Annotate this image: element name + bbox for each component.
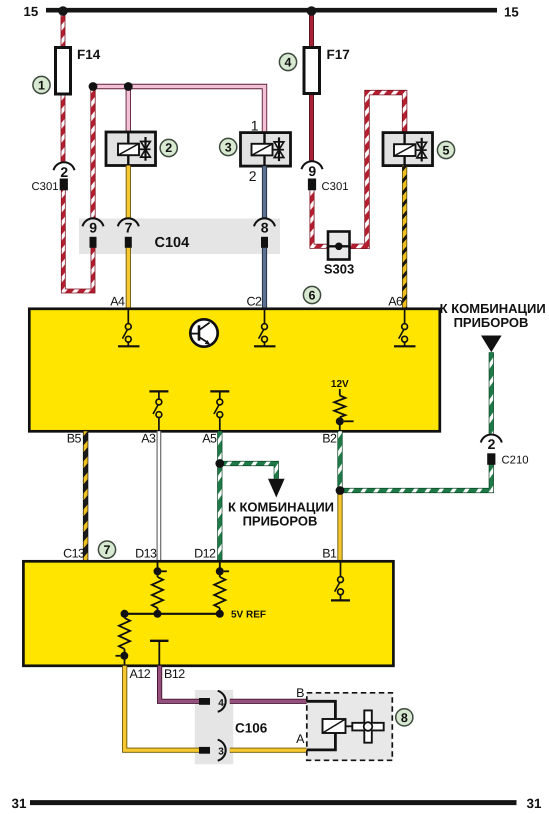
wire junction to C210 green-white <box>340 465 491 491</box>
wire F17 to C301 right <box>309 95 314 161</box>
badge 1 <box>33 76 50 93</box>
node pink junction 2 <box>124 82 133 91</box>
node pink junction 1 <box>89 82 98 91</box>
node bus junction F17 <box>307 6 317 16</box>
switch B1 inside ECU2 <box>331 562 350 600</box>
bus 15 <box>24 4 519 20</box>
bus 31 <box>12 796 542 811</box>
svg-text:B12: B12 <box>164 667 185 681</box>
svg-text:ПРИБОРОВ: ПРИБОРОВ <box>243 514 318 529</box>
badge 7 <box>98 541 115 558</box>
injector relay box 2 <box>106 132 156 166</box>
svg-text:31: 31 <box>12 796 27 811</box>
svg-text:1: 1 <box>251 118 259 134</box>
badge 5 <box>437 141 454 158</box>
svg-text:15: 15 <box>24 4 39 19</box>
wire C301 down-right-up to C104 pin 9 <box>63 190 93 291</box>
label B2 <box>322 432 337 446</box>
svg-text:7: 7 <box>125 220 133 236</box>
svg-text:B: B <box>296 686 304 700</box>
label B5 <box>67 432 82 446</box>
svg-text:7: 7 <box>104 543 111 557</box>
svg-text:3: 3 <box>225 141 232 155</box>
wire F14 to C301 <box>61 95 66 162</box>
badge 2 <box>160 139 177 156</box>
badge 8 <box>396 709 413 726</box>
connector C104 pin 9 <box>83 218 104 247</box>
injector relay box 3 <box>241 118 291 185</box>
svg-text:C2: C2 <box>247 294 263 308</box>
label C106 <box>235 721 268 736</box>
svg-text:B2: B2 <box>322 432 337 446</box>
label A <box>296 732 305 746</box>
svg-text:9: 9 <box>308 163 316 179</box>
wire F14 feed <box>61 12 66 48</box>
wire B5 to C13 black-yellow <box>83 431 88 561</box>
D13 pullup resistor <box>152 562 167 618</box>
svg-text:К КОМБИНАЦИИ: К КОМБИНАЦИИ <box>228 500 334 515</box>
A12 resistor <box>116 614 131 666</box>
svg-text:8: 8 <box>401 711 408 725</box>
D12 pullup resistor <box>214 562 266 620</box>
transistor symbol <box>190 319 217 346</box>
svg-text:D12: D12 <box>194 547 216 561</box>
wire S303 to relay 5 <box>350 93 405 247</box>
switch A6 inside ECU <box>394 310 416 346</box>
arrow to cluster mid <box>228 479 334 529</box>
label D12 <box>194 547 216 561</box>
B12 plate <box>150 641 169 666</box>
fuse F14 <box>56 47 101 94</box>
svg-text:2: 2 <box>165 141 172 155</box>
wire A12 yellow to C106 pin3 <box>125 666 210 750</box>
wire C104 pin 9 up to pink junction <box>90 87 95 218</box>
label A4 <box>110 294 125 308</box>
wire injector2 to C104 pin7 yellow <box>126 166 131 218</box>
label D13 <box>135 547 157 561</box>
connector C104 bar <box>79 219 280 255</box>
svg-text:B1: B1 <box>322 547 337 561</box>
wire junction to B1 yellow <box>337 491 342 562</box>
svg-text:C13: C13 <box>63 547 85 561</box>
wire C106 pin3 to valve A <box>230 748 307 753</box>
wire F17 feed <box>309 12 314 48</box>
wire C104 pin7 to ECU A4 <box>126 248 131 309</box>
wire C210 up to arrow green-white <box>489 352 494 433</box>
splice S303 <box>324 232 354 277</box>
label C13 <box>63 547 85 561</box>
connector C301 pin 9 <box>302 161 349 193</box>
wire B12 purple to C106 pin4 <box>160 666 210 702</box>
svg-text:1: 1 <box>38 79 45 93</box>
svg-text:A5: A5 <box>202 432 217 446</box>
connector C106 bar <box>195 690 233 764</box>
wire A5 branch to cluster <box>220 464 276 479</box>
IAC valve box 8 <box>307 693 393 761</box>
5V rail <box>121 610 220 618</box>
wire A3 to D13 white <box>156 431 161 561</box>
svg-text:S303: S303 <box>324 262 354 277</box>
ECU box 1 <box>29 309 440 432</box>
svg-text:A12: A12 <box>130 667 151 681</box>
switch A5 inside ECU <box>210 391 229 431</box>
wire pink branch to injector 2 <box>126 87 131 133</box>
label B1 <box>322 547 337 561</box>
svg-text:C104: C104 <box>155 235 190 251</box>
switch A4 inside ECU <box>118 310 140 346</box>
svg-text:5V REF: 5V REF <box>231 609 266 620</box>
switch A3 inside ECU <box>149 391 168 431</box>
svg-text:ПРИБОРОВ: ПРИБОРОВ <box>454 315 529 330</box>
svg-text:C301: C301 <box>32 181 59 193</box>
12V pullup inside ECU <box>331 379 354 431</box>
connector C106 pin 3 <box>199 740 226 761</box>
node bus junction F14 <box>58 6 68 16</box>
svg-text:2: 2 <box>249 168 257 184</box>
svg-text:9: 9 <box>89 220 97 236</box>
connector C210 pin 2 <box>481 435 529 467</box>
label B <box>296 686 304 700</box>
svg-text:A3: A3 <box>141 432 156 446</box>
svg-text:B5: B5 <box>67 432 82 446</box>
label A5 <box>202 432 217 446</box>
node A5 junction <box>215 459 224 468</box>
ECU box 2 <box>23 561 393 666</box>
label A12 <box>130 667 151 681</box>
svg-text:C106: C106 <box>235 721 268 736</box>
connector C106 pin 4 <box>199 691 226 712</box>
label C104 <box>155 235 190 251</box>
svg-text:15: 15 <box>504 5 519 20</box>
badge 4 <box>279 53 296 70</box>
badge 3 <box>220 138 237 155</box>
svg-text:8: 8 <box>261 220 269 236</box>
node B2 junction <box>336 486 345 495</box>
svg-text:5: 5 <box>443 144 450 158</box>
svg-text:F14: F14 <box>77 47 101 62</box>
svg-text:31: 31 <box>527 796 542 811</box>
label A3 <box>141 432 156 446</box>
wire C106 pin4 to valve B <box>230 699 307 704</box>
svg-text:F17: F17 <box>327 47 350 62</box>
wire C104 pin8 to ECU C2 <box>262 248 267 309</box>
connector C104 pin 7 <box>118 218 139 247</box>
label B12 <box>164 667 185 681</box>
fuse F17 <box>304 47 350 94</box>
svg-text:2: 2 <box>60 164 68 180</box>
svg-text:4: 4 <box>285 56 292 70</box>
wire B2 to junction green-white <box>337 431 342 490</box>
connector C104 pin 8 <box>254 218 275 247</box>
svg-text:C210: C210 <box>502 455 529 467</box>
svg-text:6: 6 <box>309 289 316 303</box>
badge 6 <box>303 286 320 303</box>
wire A5 to D12 green-white <box>217 431 222 561</box>
switch C2 inside ECU <box>254 310 276 346</box>
svg-text:A6: A6 <box>388 294 403 308</box>
svg-text:К КОМБИНАЦИИ: К КОМБИНАЦИИ <box>440 301 546 316</box>
arrow to cluster right <box>440 301 546 352</box>
label C2 <box>247 294 263 308</box>
connector C301 pin 2 <box>32 162 75 193</box>
svg-text:12V: 12V <box>331 379 349 390</box>
wire injector3 to C104 pin8 slate <box>262 166 267 218</box>
svg-text:A: A <box>296 732 305 746</box>
label A6 <box>388 294 403 308</box>
injector relay box 5 <box>383 133 433 166</box>
wire pink feed to injectors <box>93 87 265 133</box>
svg-text:C301: C301 <box>322 181 349 193</box>
wire injector5 to ECU A6 yellow-black <box>402 166 407 309</box>
svg-text:A4: A4 <box>110 294 125 308</box>
wire C301 right to S303 <box>312 191 328 247</box>
svg-text:2: 2 <box>488 436 496 452</box>
svg-text:D13: D13 <box>135 547 157 561</box>
